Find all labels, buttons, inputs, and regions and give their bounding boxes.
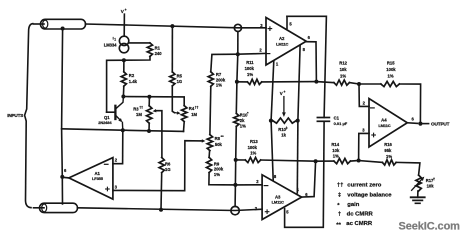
svg-text:1%: 1% [247,72,253,77]
wire top input line [86,24,267,28]
wire R13 left lead [236,159,246,161]
wire guard rail upper [236,32,238,114]
svg-text:1M: 1M [191,112,197,117]
A3 output wire [302,161,316,197]
svg-text:1.4k: 1.4k [129,79,138,84]
svg-text:1%: 1% [214,172,220,177]
potentiometer R3 1M current-zero [147,106,152,123]
resistor R2 1.4k [121,72,126,86]
resistor R13 100k [245,157,260,162]
wire Q1 base stub [107,111,115,113]
svg-text:R15: R15 [387,61,395,66]
svg-text:10k: 10k [427,184,435,189]
svg-text:1%: 1% [333,154,339,159]
wire R14 left lead [316,160,334,162]
wire R17 to ground [417,191,419,197]
svg-text:R9: R9 [214,161,220,166]
svg-text:LM11C: LM11C [272,200,284,205]
node LM334-R2 junction [122,58,126,62]
svg-text:gain: gain [347,202,360,208]
svg-text:voltage balance: voltage balance [347,193,392,199]
wire R12-R15 link [349,83,359,84]
svg-text:R1: R1 [155,46,161,51]
svg-text:R5: R5 [177,73,183,78]
node R2-R3-Q1 junction [121,95,125,99]
wire R15 left lead [359,83,381,85]
svg-text:1%: 1% [240,123,246,128]
op-amp A3 LM11C [262,175,302,220]
svg-text:1G: 1G [165,167,171,172]
wire R8-R9 link [208,151,211,158]
wire R14 right lead [350,160,358,163]
A1 output wire [62,176,69,179]
svg-text:LM11C: LM11C [378,123,390,128]
svg-text:+: + [125,8,127,12]
svg-text:R14: R14 [331,142,339,147]
R3 wiper arm [156,111,162,158]
node R12-R15-A4pin2 [357,82,361,86]
transistor Q1 2N2484 [114,106,116,119]
svg-text:C1: C1 [334,115,340,120]
svg-text:††: †† [195,105,199,109]
svg-text:+: + [284,90,286,94]
wire R12 left lead [316,82,334,83]
node balance pot left [269,119,273,123]
wire guard line [62,129,184,132]
node top cable shield tap [61,27,65,31]
resistor R14 10k [334,159,351,164]
svg-text:1%: 1% [216,83,222,88]
svg-text:INPUTS: INPUTS [7,113,23,118]
node guard-A1pin2-Q1e [121,128,125,132]
svg-text:50k: 50k [215,142,223,147]
resistor R9 200k [207,157,212,172]
wire R3 top lead [148,97,150,106]
svg-text:OUTPUT: OUTPUT [431,122,450,127]
input bracket brace [25,24,34,208]
node R13-R14-A3out [314,159,318,163]
A4 output wire [407,122,417,125]
resistor R15 100k [381,81,400,86]
svg-text:1k: 1k [281,132,286,137]
wire V+ lead [123,14,125,36]
svg-text:R16: R16 [384,142,392,147]
svg-text:95k: 95k [384,148,392,153]
guard ring terminal top [234,24,241,31]
svg-text:1M: 1M [136,112,142,117]
svg-text:1%: 1% [250,151,256,156]
wire R5 top lead [171,26,173,72]
wire R6 bottom lead [160,173,163,210]
svg-text:0.01 µF: 0.01 µF [334,121,348,126]
A3 pin2 wire [235,184,262,186]
op-amp A1 LF355 [69,158,113,200]
svg-text:†: † [433,177,435,181]
svg-text:1: 1 [114,37,116,41]
A1 pin2 wire [113,130,123,164]
node output junction [418,122,422,126]
node rail R11 left [235,80,239,84]
svg-text:R13: R13 [250,139,258,144]
svg-text:2k: 2k [240,118,245,123]
svg-text:200k: 200k [214,167,224,172]
node R5 tap on input line [170,24,174,28]
wire bottom input line [78,208,263,211]
wire LM334 bottom node [107,56,150,112]
R4 wiper arm [172,86,174,113]
shielded input cable (top) [34,23,45,25]
svg-text:dc CMRR: dc CMRR [347,212,374,218]
svg-text:R7: R7 [216,72,222,77]
svg-text:R6: R6 [165,161,171,166]
svg-text:A2: A2 [279,36,285,41]
A2 pin5 stub [286,16,288,28]
resistor R6 1G [159,158,164,173]
svg-text:240: 240 [155,51,163,56]
potentiometer R4 1M current-zero [182,106,187,122]
svg-text:V: V [280,91,283,96]
potentiometer R8 50k [207,135,212,151]
wire R11 left lead [237,81,248,83]
svg-text:**: ** [336,222,341,228]
A4 pin3 wire [359,133,369,160]
wire R7-R8 link [209,86,212,134]
svg-text:SeekIC.com: SeekIC.com [399,220,460,232]
wire R4 bottom lead [183,122,186,132]
node balance pot right [296,119,300,123]
wire R3 bottom lead [148,123,150,131]
svg-text:††: †† [337,182,344,188]
node A1 output [60,175,64,179]
ground [411,196,425,198]
node R6 bottom tap [159,208,163,212]
resistor R10* 2k gain [234,113,239,126]
node guard-R3 bottom [147,129,151,133]
wire R13 right lead [261,160,316,161]
A2 pin1 stub [271,61,274,121]
wire LM334 to R1 [129,42,150,44]
wire R7 top lead [211,54,238,72]
svg-text:††: †† [139,106,143,110]
node rail A2pin2/R7 [236,52,240,56]
potentiometer R10 1k voltage balance [273,118,297,123]
shielded input cable (bottom) [34,207,45,209]
svg-text:ac CMRR: ac CMRR [346,221,373,227]
resistor R12 10k [334,80,350,85]
wire guard rail lower [235,126,236,206]
potentiometer R17 10k dc CMRR [416,175,421,191]
svg-text:1%: 1% [386,154,392,159]
node R11-R12-A2out [314,80,318,84]
svg-text:R12: R12 [339,61,347,66]
resistor R11 100k [247,79,261,84]
svg-text:10k: 10k [340,67,348,72]
svg-text:100k: 100k [386,67,396,72]
A2 pin2 wire [238,52,266,55]
svg-text:100k: 100k [245,66,255,71]
A3 pin8 stub [271,121,273,181]
wire R11 right lead [262,81,317,83]
svg-text:R11: R11 [246,60,254,65]
svg-text:‡: ‡ [338,193,341,199]
node rail A3pin2/R9 [233,183,237,187]
svg-text:‡: ‡ [286,126,288,130]
wire output stub [420,123,428,125]
A1 pin3 wire [113,141,201,191]
A2 output wire [306,42,316,82]
A4 pin2 wire [359,84,369,106]
resistor R7 200k [208,72,213,87]
guard ring terminal bottom [231,206,239,214]
svg-text:LM11C: LM11C [276,42,288,47]
node R3 top tap [147,95,151,99]
resistor R1 240 [147,43,152,57]
wire R9 bottom lead [209,173,236,185]
op-amp A2 LM11C [266,18,306,66]
svg-text:1%: 1% [340,74,346,79]
svg-text:**: ** [221,135,224,139]
svg-text:†: † [338,212,341,218]
op-amp A4 LM11C [369,99,407,148]
wire R16 right lead [396,162,420,175]
svg-text:1G: 1G [177,79,183,84]
wire C1 bottom to A3 pin5 [285,121,325,227]
wire shield guard vertical [62,29,63,204]
wire R3/R4 top line [123,97,184,106]
svg-text:LF355: LF355 [92,176,104,181]
R17 wiper arrow [412,180,422,191]
wire R16 left lead [359,161,383,163]
svg-text:LM334: LM334 [104,43,117,48]
svg-text:current zero: current zero [347,182,381,188]
svg-text:R2: R2 [129,73,135,78]
node rail R13 left [234,158,238,162]
current source I1 LM334 [119,36,128,45]
svg-text:1%: 1% [388,74,394,79]
svg-text:2N2484: 2N2484 [98,120,112,125]
A3 pin1 stub [296,121,299,193]
wire R15 right to output [399,84,420,124]
node A4 pin3 junction [357,159,361,163]
svg-text:100k: 100k [248,145,258,150]
A2 pin8 stub [298,45,300,120]
resistor R5 1G [170,72,175,86]
resistor R16 95k [382,160,396,165]
wire R2 bottom lead [122,86,124,96]
svg-text:10k: 10k [332,148,340,153]
V+ wiper arrow [283,97,285,113]
capacitor C1 0.01uF [317,117,329,119]
wire A2pin5 comp rail [287,16,326,117]
wire R2 top lead [123,60,125,72]
